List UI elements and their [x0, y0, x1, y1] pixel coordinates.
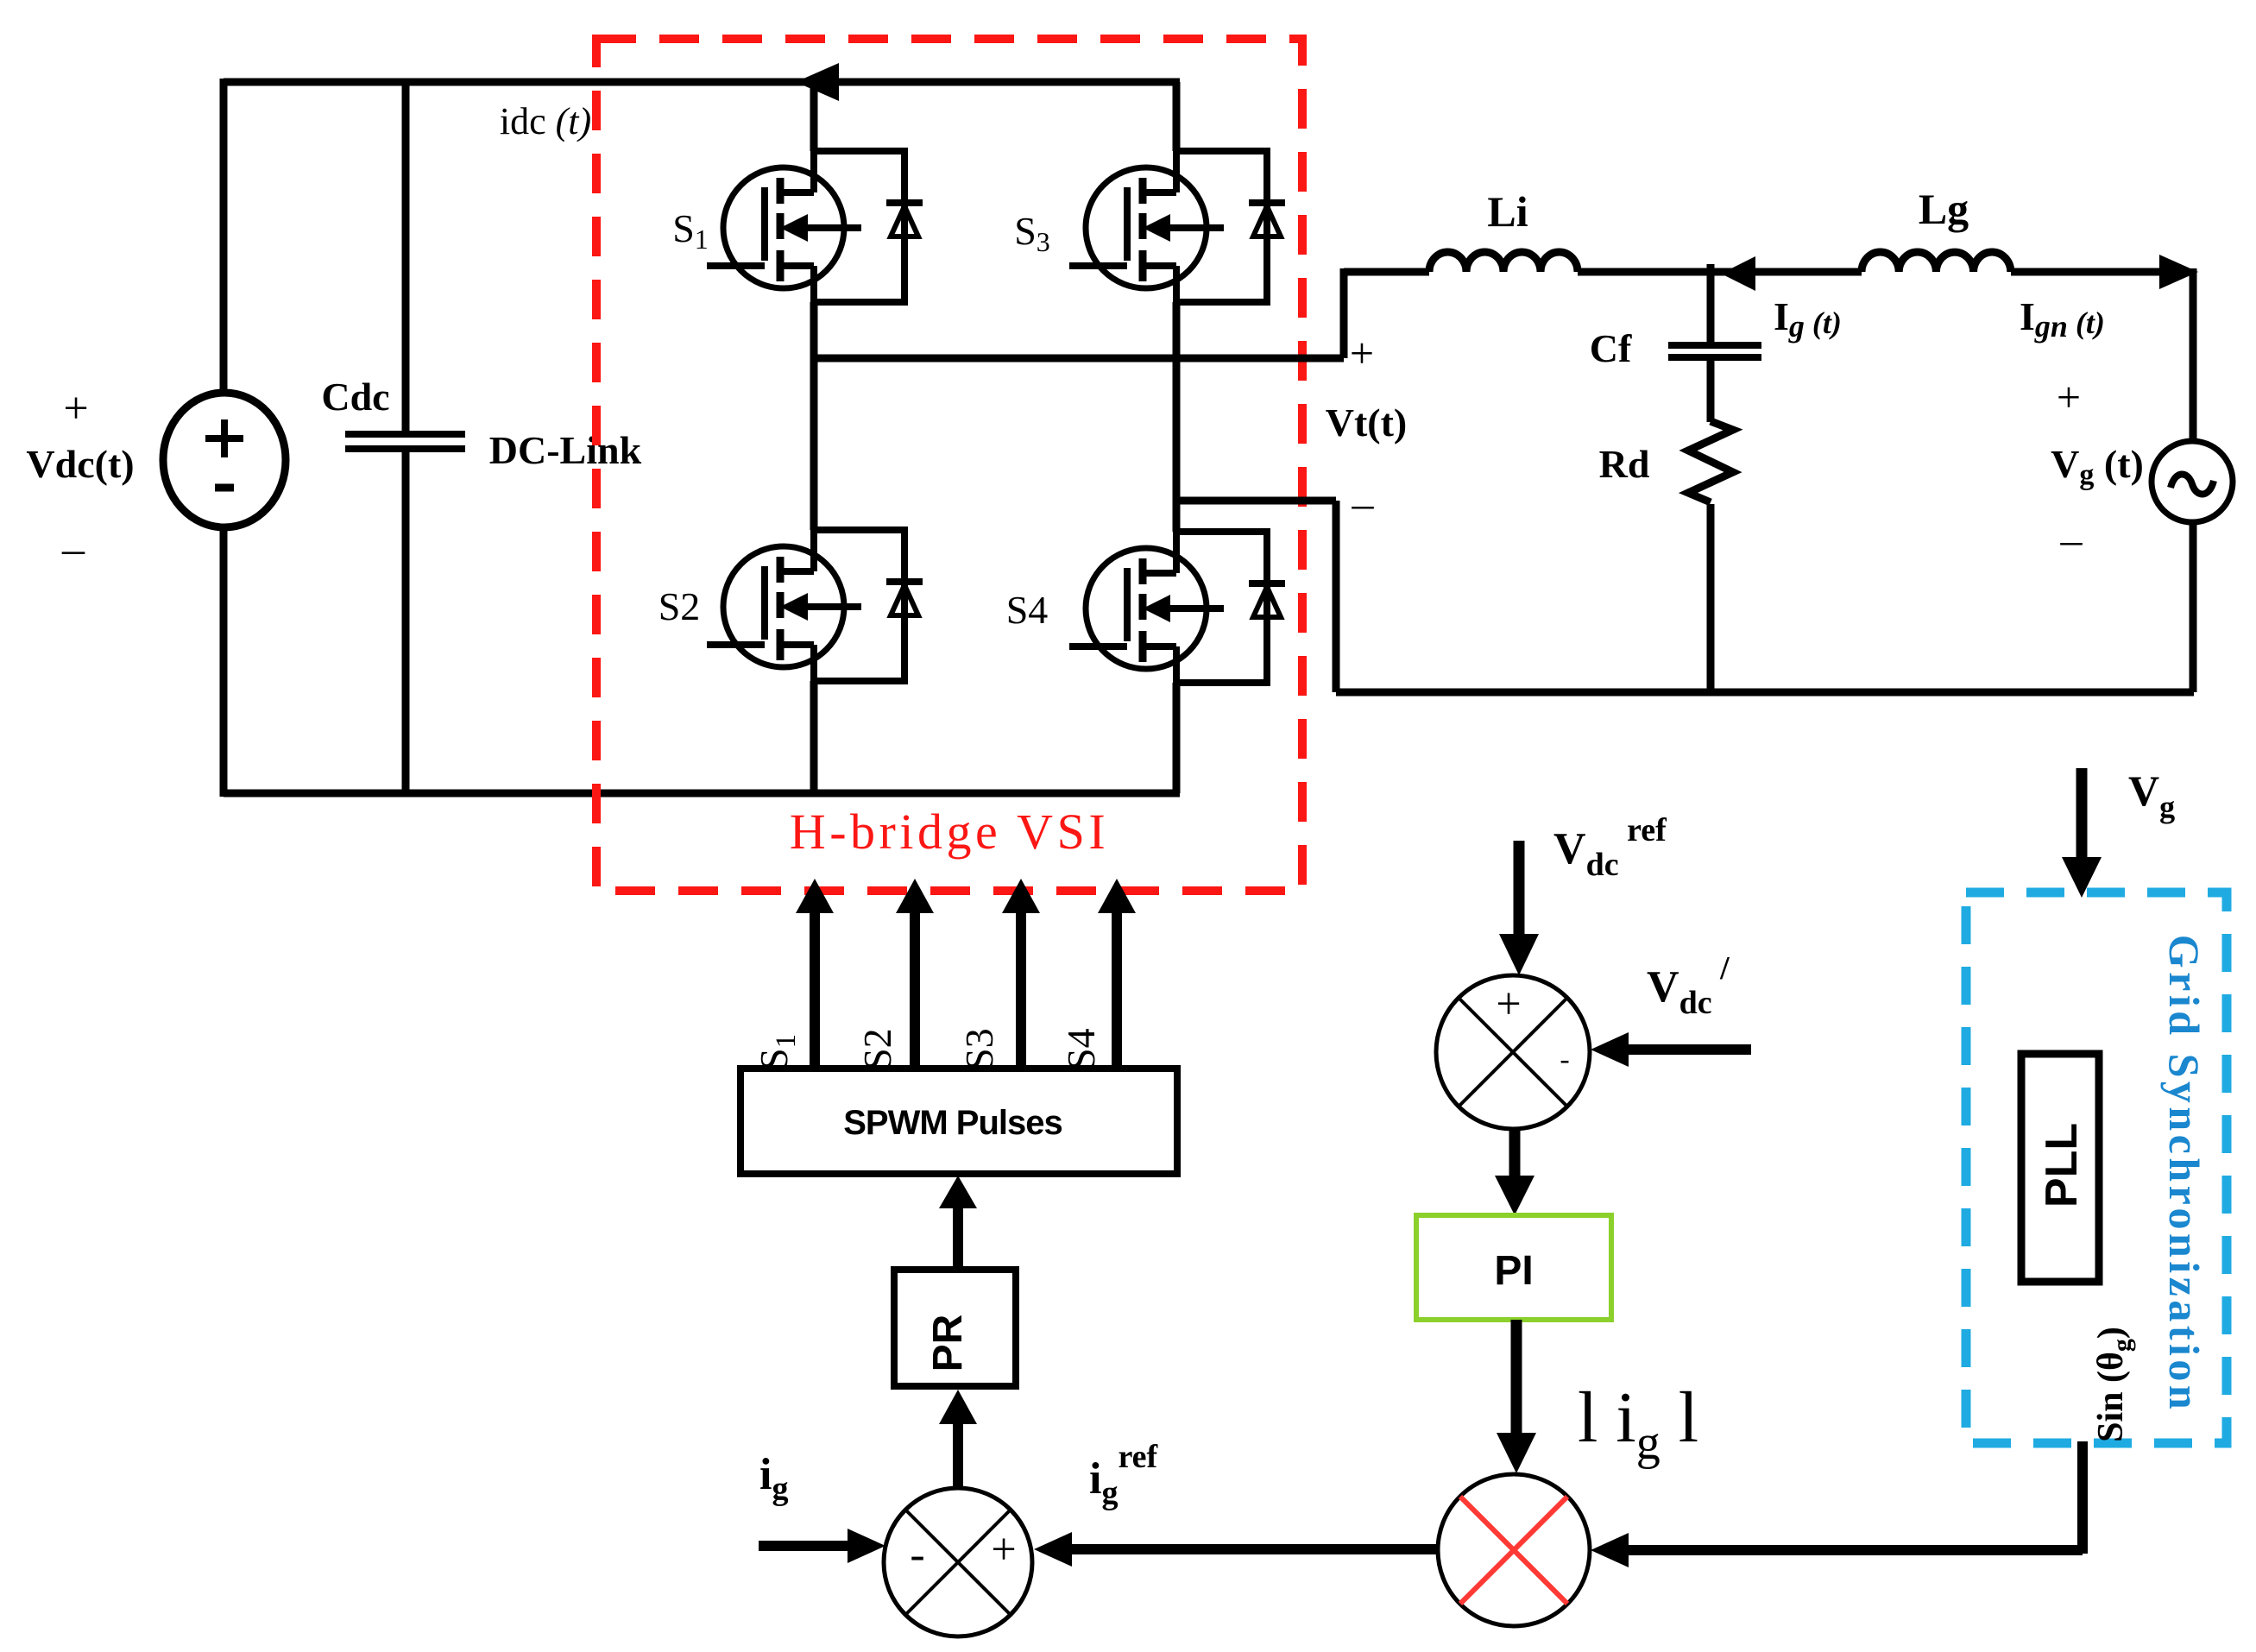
svg-text:SPWM Pulses: SPWM Pulses	[843, 1104, 1062, 1142]
svg-text:l ig l: l ig l	[1578, 1378, 1698, 1470]
svg-text:PR: PR	[925, 1315, 971, 1372]
svg-text:Vdc(t): Vdc(t)	[26, 442, 134, 486]
svg-text:S1: S1	[752, 1034, 802, 1070]
svg-text:igref: igref	[1089, 1439, 1158, 1511]
svg-text:Grid Synchronization: Grid Synchronization	[2160, 935, 2209, 1413]
svg-text:–: –	[2060, 515, 2083, 564]
svg-text:Vt(t): Vt(t)	[1326, 400, 1408, 445]
svg-text:S3: S3	[957, 1028, 1001, 1070]
svg-text:Vdc ref: Vdc ref	[1553, 812, 1667, 883]
svg-text:PLL: PLL	[2037, 1123, 2087, 1207]
svg-text:-: -	[1560, 1044, 1569, 1075]
svg-text:DC-Link: DC-Link	[489, 428, 642, 472]
svg-text:ig: ig	[759, 1450, 788, 1507]
svg-text:+: +	[1496, 980, 1521, 1029]
svg-text:Vdc /: Vdc /	[1647, 950, 1730, 1021]
svg-text:S4: S4	[1059, 1028, 1103, 1070]
svg-text:Ig (t): Ig (t)	[1774, 294, 1842, 344]
svg-text:+: +	[991, 1525, 1016, 1574]
svg-text:–: –	[61, 525, 85, 574]
svg-text:Vg: Vg	[2128, 766, 2175, 824]
svg-text:PI: PI	[1494, 1248, 1533, 1294]
svg-text:S1: S1	[672, 206, 709, 255]
svg-text:Rd: Rd	[1599, 442, 1650, 486]
svg-text:Cf: Cf	[1590, 326, 1632, 370]
svg-text:S2: S2	[659, 584, 701, 628]
svg-text:S2: S2	[855, 1028, 899, 1070]
svg-text:Ign (t): Ign (t)	[2020, 294, 2105, 344]
svg-text:idc (t): idc (t)	[500, 100, 591, 142]
svg-text:+: +	[1350, 329, 1374, 377]
svg-text:Cdc: Cdc	[321, 375, 389, 419]
svg-text:Sin (θg): Sin (θg)	[2091, 1327, 2136, 1442]
svg-text:S3: S3	[1014, 209, 1050, 257]
svg-text:+: +	[2057, 373, 2081, 421]
svg-text:-: -	[910, 1530, 924, 1579]
svg-text:Lg: Lg	[1919, 185, 1969, 233]
svg-text:S4: S4	[1006, 588, 1049, 632]
svg-text:+: +	[63, 384, 88, 433]
svg-text:Li: Li	[1487, 187, 1528, 236]
svg-text:Vg (t): Vg (t)	[2051, 442, 2144, 491]
svg-text:H-bridge VSI: H-bridge VSI	[790, 804, 1109, 860]
svg-text:–: –	[1352, 479, 1375, 527]
